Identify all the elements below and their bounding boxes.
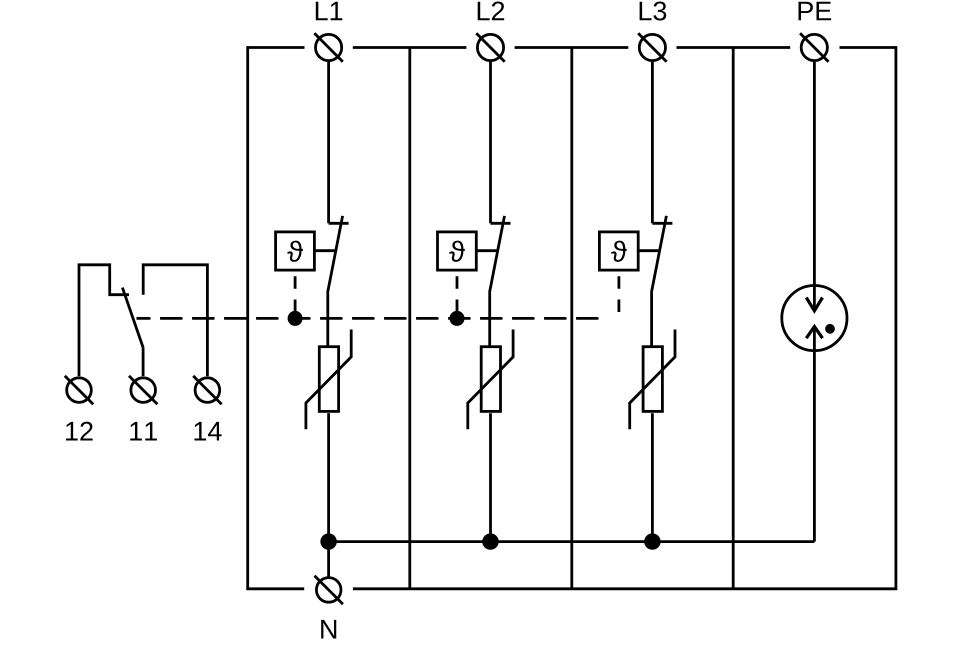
connector thermal box to switch L1 [314, 249, 335, 252]
divider wire between L3 and PE [732, 48, 735, 589]
varistor L3 [630, 330, 675, 430]
enclosure box top line [248, 46, 896, 49]
label 14 [194, 422, 221, 441]
wire disconnector to varistor L1 [326, 293, 329, 346]
enclosure box left edge [246, 46, 249, 589]
label L2 [478, 1, 504, 20]
terminal L2 [476, 33, 504, 61]
enclosure box bottom line [246, 587, 897, 590]
connector thermal box to switch L3 [638, 249, 659, 252]
wire varistor L1 to N bus [327, 413, 330, 576]
dashed link thermal box L1 [294, 272, 297, 319]
wire blade to terminal 11 [142, 348, 145, 377]
junction dot N bus L2 [482, 533, 498, 549]
thermal sensor box F3 [599, 232, 638, 270]
label 11 [130, 422, 157, 441]
wire L2 terminal to disconnector [489, 62, 492, 223]
terminal PE [800, 33, 828, 61]
thermal sensor box F1 [276, 232, 315, 270]
label L3 [640, 1, 667, 20]
connector thermal box to switch L2 [476, 249, 497, 252]
thermal sensor box F2 [438, 232, 477, 270]
spark gap upper arrowhead [806, 298, 822, 311]
dashed link thermal box L3 [618, 272, 621, 319]
divider wire between L1 and L2 [408, 48, 411, 589]
changeover contact blade [122, 288, 143, 348]
label N [321, 620, 336, 639]
varistor L1 [306, 330, 351, 430]
terminal 12 [65, 376, 93, 404]
terminal L3 [638, 33, 666, 61]
varistor L2 [468, 330, 513, 430]
spark gap circle [782, 286, 847, 351]
N bus wire [329, 540, 815, 543]
junction dot on trip line L1 [288, 311, 303, 326]
wire disconnector to varistor L3 [650, 293, 653, 346]
wire L3 terminal to disconnector [651, 62, 654, 223]
wire varistor L2 to N bus [489, 413, 492, 541]
thermal disconnector switch L3 [651, 216, 672, 293]
thermal disconnector switch L1 [328, 216, 349, 293]
dashed link thermal box L2 [456, 272, 459, 319]
wire PE terminal to spark gap [813, 62, 816, 311]
label 12 [66, 422, 93, 441]
divider wire between L2 and L3 [570, 48, 573, 589]
terminal L1 [314, 33, 342, 61]
spark gap lower arrowhead [806, 327, 822, 339]
spark gap gas dot [825, 324, 835, 334]
terminal N [315, 576, 343, 604]
enclosure box right edge [895, 46, 898, 589]
junction dot N bus L1 [320, 533, 336, 549]
thermal disconnector switch L2 [490, 216, 511, 293]
terminal 11 [129, 376, 157, 404]
label L1 [316, 2, 343, 21]
trip dashed line [137, 317, 600, 320]
label PE [799, 2, 832, 21]
junction dot on trip line L2 [450, 311, 465, 326]
wire varistor L3 to N bus [651, 413, 654, 541]
junction dot N bus L3 [644, 533, 660, 549]
terminal 14 [193, 376, 221, 404]
wire L1 terminal to disconnector [327, 62, 330, 223]
wire spark gap to N bus [813, 327, 816, 542]
wire terminal 12 to NC contact [79, 265, 129, 376]
wire disconnector to varistor L2 [488, 293, 491, 346]
wire terminal 14 to NO contact [143, 265, 207, 376]
